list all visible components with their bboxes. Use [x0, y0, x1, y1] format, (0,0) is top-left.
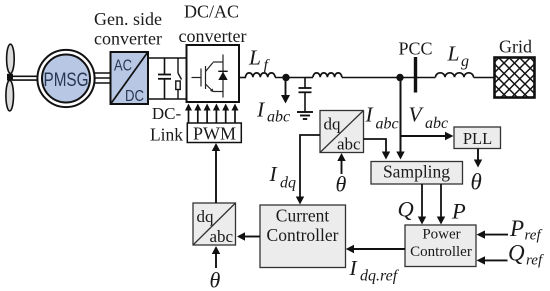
svg-text:abc: abc: [267, 109, 290, 126]
svg-text:f: f: [264, 57, 271, 74]
svg-text:L: L: [447, 42, 460, 66]
svg-text:DC-: DC-: [152, 104, 182, 123]
svg-text:PMSG: PMSG: [44, 70, 89, 91]
svg-text:dq: dq: [280, 175, 296, 192]
svg-text:g: g: [461, 53, 469, 70]
svg-text:L: L: [248, 46, 261, 70]
svg-text:θ: θ: [471, 170, 482, 195]
svg-text:DC/AC: DC/AC: [184, 2, 239, 22]
svg-text:I: I: [365, 103, 374, 127]
svg-text:I: I: [269, 162, 278, 186]
svg-text:θ: θ: [210, 268, 221, 291]
svg-text:Sampling: Sampling: [383, 162, 450, 182]
svg-text:PCC: PCC: [398, 39, 432, 59]
svg-text:AC: AC: [114, 58, 132, 75]
svg-text:dq.ref: dq.ref: [360, 268, 400, 285]
svg-text:dq: dq: [197, 207, 215, 226]
svg-text:Power: Power: [422, 227, 460, 243]
svg-text:Grid: Grid: [499, 37, 532, 57]
svg-text:Controller: Controller: [267, 225, 339, 245]
svg-text:I: I: [256, 98, 265, 122]
svg-text:dq: dq: [324, 115, 342, 134]
svg-text:converter: converter: [94, 29, 162, 49]
svg-text:ref: ref: [525, 228, 543, 244]
svg-text:Current: Current: [276, 206, 330, 226]
svg-text:abc: abc: [210, 227, 234, 246]
svg-text:PLL: PLL: [463, 129, 492, 148]
svg-text:converter: converter: [179, 26, 247, 46]
svg-text:I: I: [349, 256, 358, 280]
svg-text:PWM: PWM: [193, 124, 236, 144]
svg-text:Link: Link: [150, 125, 183, 145]
svg-text:abc: abc: [376, 116, 399, 133]
svg-text:θ: θ: [336, 172, 347, 197]
svg-text:abc: abc: [425, 115, 448, 132]
svg-text:Q: Q: [398, 197, 414, 222]
svg-text:ref: ref: [526, 253, 544, 269]
svg-text:abc: abc: [337, 135, 361, 154]
svg-text:Gen. side: Gen. side: [94, 9, 162, 29]
svg-text:DC: DC: [125, 88, 144, 105]
svg-text:P: P: [509, 216, 524, 241]
svg-text:V: V: [409, 103, 425, 127]
svg-text:Controller: Controller: [410, 244, 472, 260]
svg-text:P: P: [451, 199, 466, 224]
svg-text:Q: Q: [508, 241, 525, 266]
